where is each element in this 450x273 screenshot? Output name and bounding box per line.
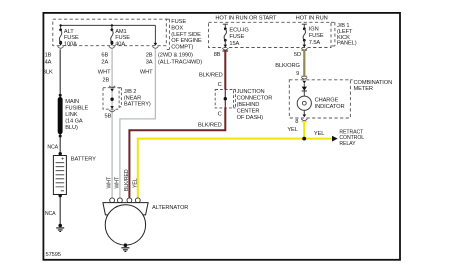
wire label YEL (left) bbox=[287, 127, 297, 133]
svg-text:5B: 5B bbox=[105, 114, 112, 120]
connector 6B/2A below fuse box bbox=[109, 46, 115, 48]
wire label BLK bbox=[42, 70, 53, 76]
svg-text:(NEAR: (NEAR bbox=[124, 95, 141, 101]
svg-text:C: C bbox=[218, 112, 222, 118]
wire: BLK battery feed bbox=[59, 49, 61, 224]
svg-text:INDICATOR: INDICATOR bbox=[315, 104, 345, 110]
fuse ALT 100A bbox=[59, 28, 63, 45]
svg-text:ALTERNATOR: ALTERNATOR bbox=[152, 205, 188, 211]
svg-text:FUSE: FUSE bbox=[171, 19, 186, 25]
svg-text:2B: 2B bbox=[146, 52, 153, 58]
svg-text:FUSE: FUSE bbox=[229, 34, 244, 40]
label: JUNCTION CONNECTOR (BEHIND CENTER OF DASH) bbox=[237, 89, 273, 121]
svg-text:LINK: LINK bbox=[65, 112, 78, 118]
svg-text:BLK/RED: BLK/RED bbox=[199, 73, 223, 79]
pin label 2B at J/B2 bbox=[102, 77, 109, 83]
label: diagram number 57595 bbox=[46, 252, 61, 258]
wire: fuse box internal bus bbox=[61, 25, 156, 43]
svg-text:FUSE: FUSE bbox=[115, 35, 130, 41]
battery bbox=[53, 152, 66, 197]
svg-text:ALT: ALT bbox=[64, 29, 74, 35]
svg-text:CHARGE: CHARGE bbox=[315, 98, 339, 104]
wire label WHT (right branch) bbox=[140, 70, 153, 76]
label: HOT IN RUN OR START bbox=[215, 16, 277, 22]
label: ALT FUSE 100A bbox=[64, 29, 79, 48]
label: BATTERY bbox=[71, 156, 96, 162]
svg-text:BATTERY): BATTERY) bbox=[124, 102, 151, 108]
svg-text:40A: 40A bbox=[115, 42, 125, 48]
pin label C (upper) bbox=[218, 82, 222, 88]
label: IGN FUSE 7.5A bbox=[309, 26, 324, 45]
pin label 5D bbox=[294, 52, 301, 58]
junction connector (behind center of dash) bbox=[215, 90, 235, 108]
svg-text:WHT: WHT bbox=[98, 70, 111, 76]
svg-text:WHT: WHT bbox=[140, 70, 153, 76]
diode (in meter) bbox=[302, 84, 307, 92]
connector 1B/4A below fuse box bbox=[58, 46, 64, 48]
wire label BLK/RED (vertical, alternator pin 3) bbox=[124, 169, 130, 191]
combination meter bbox=[289, 77, 352, 120]
svg-text:2A: 2A bbox=[101, 59, 108, 65]
svg-text:57595: 57595 bbox=[46, 252, 61, 258]
fuse IGN 7.5A bbox=[302, 24, 307, 47]
pin labels 2B (2WD & 1990) / 3A (ALL-TRAC/4WD) bbox=[146, 52, 203, 65]
svg-text:FUSIBLE: FUSIBLE bbox=[65, 106, 88, 112]
svg-text:C: C bbox=[218, 82, 222, 88]
connector 5D below J/B1 bbox=[301, 48, 307, 50]
svg-text:METER: METER bbox=[354, 86, 373, 92]
wire label WHT (left) bbox=[98, 70, 111, 76]
svg-text:(LEFT SIDE: (LEFT SIDE bbox=[171, 32, 201, 38]
pin labels 6B 2A bbox=[101, 52, 108, 65]
wire: BLK/RED from ECU-IG fuse bbox=[223, 51, 229, 90]
svg-text:5D: 5D bbox=[294, 52, 301, 58]
svg-text:100A: 100A bbox=[64, 42, 77, 48]
svg-text:BLK/ORG: BLK/ORG bbox=[275, 63, 300, 69]
svg-text:HOT IN RUN OR START: HOT IN RUN OR START bbox=[215, 16, 277, 22]
J/B 2 (near battery) bbox=[103, 86, 121, 112]
svg-text:7.5A: 7.5A bbox=[309, 40, 321, 46]
pin label 5B bbox=[105, 114, 112, 120]
svg-text:RELAY: RELAY bbox=[339, 141, 356, 147]
wire label BLK/ORG bbox=[275, 63, 300, 69]
main fusible link (14 GA BLU) bbox=[58, 94, 63, 138]
svg-text:ECU-IG: ECU-IG bbox=[229, 28, 248, 34]
svg-text:WHT: WHT bbox=[107, 176, 113, 188]
svg-text:CONNECTOR: CONNECTOR bbox=[237, 96, 273, 102]
svg-text:2B: 2B bbox=[102, 77, 109, 83]
svg-text:6B: 6B bbox=[101, 52, 108, 58]
svg-text:YEL: YEL bbox=[287, 127, 297, 133]
svg-text:8B: 8B bbox=[214, 52, 221, 58]
label: J/B 2 (NEAR BATTERY) bbox=[124, 89, 151, 108]
wire label BLK/RED (upper) bbox=[199, 73, 223, 79]
label: RETRACT CONTROL RELAY bbox=[339, 129, 364, 146]
label: HOT IN RUN bbox=[296, 16, 328, 22]
wire: WHT alternator feed (via J/B2) bbox=[111, 49, 113, 198]
svg-text:NCA: NCA bbox=[47, 145, 58, 151]
svg-text:8: 8 bbox=[295, 119, 298, 125]
wire: YEL from meter bbox=[301, 122, 307, 139]
svg-text:JUNCTION: JUNCTION bbox=[237, 89, 265, 95]
wire: YEL horizontal to relay and alternator bbox=[138, 139, 332, 198]
ground (battery) bbox=[56, 224, 64, 232]
label: CHARGE INDICATOR bbox=[315, 98, 345, 110]
label: AM1 FUSE 40A bbox=[115, 29, 130, 48]
svg-text:(ALL-TRAC/4WD): (ALL-TRAC/4WD) bbox=[158, 60, 202, 66]
pin labels 1B 4A bbox=[45, 52, 52, 65]
svg-text:BLK/RED: BLK/RED bbox=[198, 122, 222, 128]
svg-text:IGN: IGN bbox=[309, 26, 319, 32]
svg-text:(14 GA: (14 GA bbox=[65, 119, 83, 125]
wire label WHT (vertical, alternator pin 1) bbox=[107, 176, 113, 188]
svg-text:BATTERY: BATTERY bbox=[71, 156, 96, 162]
arrow to retract control relay bbox=[332, 136, 338, 142]
pin label 9 bbox=[296, 71, 299, 77]
junction: J/B2 internal node bbox=[110, 98, 113, 101]
junction: bus tap at ALT fuse bbox=[59, 24, 61, 26]
fuse box (left side of engine compt) bbox=[53, 19, 202, 50]
svg-text:BLK/RED: BLK/RED bbox=[124, 169, 130, 191]
junction: YEL node bbox=[302, 137, 306, 141]
svg-text:HOT IN RUN: HOT IN RUN bbox=[296, 16, 328, 22]
svg-text:YEL: YEL bbox=[133, 178, 139, 188]
fuse ECU-IG 15A bbox=[223, 24, 228, 47]
wire: BLK/ORG from IGN fuse bbox=[302, 50, 308, 76]
junction: bus tap at AM1 fuse bbox=[111, 24, 113, 26]
svg-text:YEL: YEL bbox=[314, 131, 324, 137]
wire label BLK/RED (lower) bbox=[198, 122, 222, 128]
svg-text:OF DASH): OF DASH) bbox=[237, 115, 264, 121]
svg-text:4A: 4A bbox=[45, 59, 52, 65]
svg-text:(BEHIND: (BEHIND bbox=[237, 102, 260, 108]
wire label YEL (vertical, alternator pin 4) bbox=[133, 178, 139, 188]
svg-text:COMPT): COMPT) bbox=[171, 45, 193, 51]
label: J/B 1 (LEFT KICK PANEL) bbox=[337, 23, 357, 47]
svg-text:CENTER: CENTER bbox=[237, 108, 260, 114]
alternator bbox=[103, 198, 148, 245]
pin label C (lower) bbox=[218, 112, 222, 118]
label NCA (above battery) bbox=[47, 145, 58, 151]
svg-text:BLK: BLK bbox=[42, 70, 53, 76]
svg-text:PANEL): PANEL) bbox=[337, 41, 357, 47]
svg-text:3A: 3A bbox=[146, 60, 153, 66]
svg-text:9: 9 bbox=[296, 71, 299, 77]
wire: BLK/RED to alternator bbox=[129, 108, 225, 198]
charge indicator lamp bbox=[297, 91, 311, 115]
svg-text:AM1: AM1 bbox=[115, 29, 126, 35]
svg-text:J/B 2: J/B 2 bbox=[124, 89, 136, 95]
svg-text:MAIN: MAIN bbox=[65, 99, 79, 105]
svg-text:BOX: BOX bbox=[171, 26, 183, 32]
wire label YEL (right) bbox=[314, 131, 324, 137]
svg-text:BLU): BLU) bbox=[65, 125, 78, 131]
label: MAIN FUSIBLE LINK (14 GA BLU) bbox=[65, 99, 88, 131]
label: ALTERNATOR bbox=[152, 205, 188, 211]
pin label 8 bbox=[295, 119, 298, 125]
connector 8B below J/B1 bbox=[222, 48, 228, 50]
fuse AM1 40A bbox=[110, 28, 114, 45]
svg-text:15A: 15A bbox=[229, 41, 239, 47]
connector 2B/3A: fuse box right branch exit bbox=[152, 43, 158, 48]
svg-text:WHT: WHT bbox=[114, 176, 120, 188]
svg-text:(2WD & 1990): (2WD & 1990) bbox=[158, 52, 193, 58]
wire: WHT second alternator feed bbox=[120, 49, 155, 198]
svg-text:FUSE: FUSE bbox=[64, 35, 79, 41]
ground (alternator) bbox=[121, 243, 129, 251]
label NCA (below battery) bbox=[45, 211, 56, 217]
pin label 8B bbox=[214, 52, 221, 58]
label: ECU-IG FUSE 15A bbox=[229, 28, 248, 47]
label: COMBINATION METER bbox=[354, 80, 393, 92]
junction: junction connector node bbox=[224, 97, 227, 100]
svg-text:1B: 1B bbox=[45, 52, 52, 58]
wire label WHT (vertical, alternator pin 2) bbox=[114, 176, 120, 188]
svg-text:NCA: NCA bbox=[45, 211, 56, 217]
svg-text:FUSE: FUSE bbox=[309, 33, 324, 39]
fuse block (J/B1) dashed box HOT IN RUN bbox=[209, 22, 335, 47]
svg-text:OF ENGINE: OF ENGINE bbox=[171, 38, 202, 44]
